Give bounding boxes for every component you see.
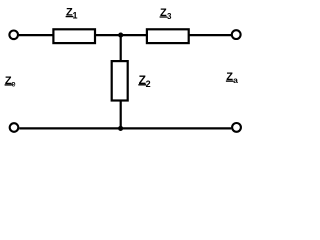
terminal T1 (top-left input) <box>9 31 18 40</box>
wire node A to Z2 <box>120 35 122 61</box>
terminal T4 (bottom-right output) <box>232 123 241 132</box>
wire T1 to Z1 <box>19 34 54 36</box>
wire Z1 to Z3 <box>95 34 147 36</box>
label Z1 <box>66 7 78 21</box>
wire Z2 to node B <box>120 101 122 129</box>
terminal T2 (top-right output) <box>232 30 241 39</box>
label Ze (input impedance) <box>5 75 17 89</box>
terminal T3 (bottom-left input) <box>10 123 19 132</box>
bottom rail wire T3 to T4 <box>19 127 231 129</box>
impedance Z3 <box>147 29 189 43</box>
svg-text:1: 1 <box>73 11 78 21</box>
label Z2 <box>138 73 150 89</box>
svg-text:e: e <box>11 80 16 89</box>
impedance Z2 <box>112 61 128 100</box>
label Za (output impedance) <box>226 71 238 85</box>
impedance Z1 <box>53 29 95 43</box>
svg-text:2: 2 <box>146 79 151 89</box>
node A (top junction) <box>118 33 123 38</box>
label Z3 <box>160 7 172 21</box>
wire Z3 to T2 <box>189 34 231 36</box>
node B (bottom junction) <box>118 126 123 131</box>
svg-text:3: 3 <box>167 12 172 21</box>
svg-text:a: a <box>233 75 238 85</box>
